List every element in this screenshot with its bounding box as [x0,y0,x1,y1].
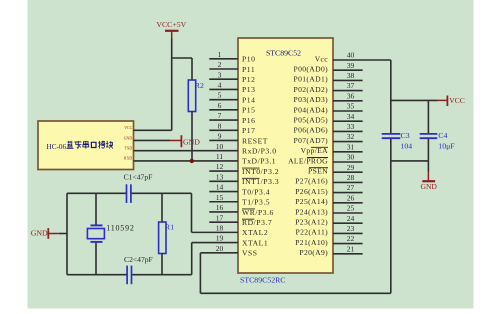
svg-text:23: 23 [347,224,355,233]
svg-text:27: 27 [347,183,355,192]
svg-text:P10: P10 [242,55,255,64]
svg-text:P03(AD3): P03(AD3) [294,95,329,104]
svg-text:11: 11 [216,152,224,161]
svg-text:P25(A14): P25(A14) [295,197,328,206]
svg-text:33: 33 [347,122,355,131]
svg-text:P15: P15 [242,106,255,115]
svg-text:P07(AD7): P07(AD7) [294,136,329,145]
svg-text:25: 25 [347,204,355,213]
svg-text:P20(A9): P20(A9) [299,248,328,257]
svg-text:P12: P12 [242,75,255,84]
svg-text:P24(A13): P24(A13) [295,207,328,216]
svg-text:30: 30 [347,153,355,162]
svg-text:P00(AD0): P00(AD0) [294,65,329,74]
svg-text:39: 39 [347,61,355,70]
svg-text:26: 26 [347,193,355,202]
svg-text:RXD: RXD [124,157,132,161]
svg-text:1: 1 [218,50,222,59]
svg-text:P13: P13 [242,85,255,94]
svg-text:GND: GND [183,137,200,146]
svg-text:XTAL2: XTAL2 [242,228,268,237]
svg-text:9: 9 [218,132,222,141]
svg-text:2: 2 [218,60,222,69]
svg-text:14: 14 [216,183,224,192]
svg-text:18: 18 [216,223,224,232]
svg-text:P05(AD5): P05(AD5) [294,116,329,125]
svg-text:P04(AD4): P04(AD4) [294,105,329,114]
svg-text:40: 40 [347,51,355,60]
svg-text:Vcc: Vcc [315,54,329,63]
svg-text:TXD: TXD [124,146,132,150]
svg-text:P01(AD1): P01(AD1) [294,75,329,84]
svg-text:7: 7 [218,111,222,120]
svg-text:P16: P16 [242,116,255,125]
svg-text:VCC: VCC [449,96,465,105]
svg-text:31: 31 [347,142,355,151]
svg-text:C2<47pF: C2<47pF [124,255,153,264]
svg-text:P26(A15): P26(A15) [295,187,328,196]
svg-text:104: 104 [401,142,413,151]
svg-text:T1/P3.5: T1/P3.5 [242,198,270,207]
svg-text:110592: 110592 [106,224,135,233]
svg-text:16: 16 [216,203,224,212]
svg-text:36: 36 [347,91,355,100]
svg-text:5: 5 [218,91,222,100]
svg-text:P11: P11 [242,65,255,74]
svg-text:C4: C4 [438,131,447,140]
svg-text:VSS: VSS [242,249,258,258]
svg-text:P23(A12): P23(A12) [295,218,328,227]
svg-text:C3: C3 [401,131,410,140]
svg-text:19: 19 [216,234,224,243]
svg-text:6: 6 [218,101,222,110]
svg-text:P02(AD2): P02(AD2) [294,85,329,94]
svg-text:10μF: 10μF [438,142,455,151]
svg-text:28: 28 [347,173,355,182]
svg-text:8: 8 [218,121,222,130]
svg-text:15: 15 [216,193,224,202]
svg-text:GND: GND [420,182,437,191]
svg-text:GND: GND [124,136,133,140]
svg-text:35: 35 [347,102,355,111]
svg-text:STC89C52RC: STC89C52RC [240,276,286,285]
svg-text:TxD/P3.1: TxD/P3.1 [242,157,276,166]
svg-text:20: 20 [216,244,224,253]
svg-text:32: 32 [347,132,355,141]
svg-text:22: 22 [347,234,355,243]
svg-text:HC-06: HC-06 [47,143,67,151]
svg-text:34: 34 [347,112,355,121]
svg-text:P17: P17 [242,126,255,135]
svg-text:GND: GND [31,229,48,238]
svg-text:C1<47pF: C1<47pF [124,173,153,182]
svg-text:12: 12 [216,162,224,171]
svg-text:STC89C52: STC89C52 [266,49,301,58]
svg-text:R1: R1 [165,223,174,232]
svg-text:XTAL1: XTAL1 [242,238,268,247]
svg-text:P22(A11): P22(A11) [296,228,329,237]
svg-text:VCC+5V: VCC+5V [156,20,186,29]
svg-text:17: 17 [216,213,224,222]
svg-text:10: 10 [216,142,224,151]
svg-text:3: 3 [218,70,222,79]
svg-text:RESET: RESET [242,136,268,145]
svg-text:VCC: VCC [124,126,132,130]
svg-text:P27(A16): P27(A16) [295,177,328,186]
svg-text:29: 29 [347,163,355,172]
svg-text:21: 21 [347,244,355,253]
svg-text:24: 24 [347,214,355,223]
svg-text:R2: R2 [195,81,204,90]
svg-text:37: 37 [347,81,355,90]
svg-text:P14: P14 [242,95,255,104]
svg-text:RxD/P3.0: RxD/P3.0 [242,146,277,155]
svg-text:P06(AD6): P06(AD6) [294,126,329,135]
svg-text:T0/P3.4: T0/P3.4 [242,187,270,196]
svg-text:13: 13 [216,172,224,181]
svg-text:4: 4 [218,81,222,90]
svg-text:38: 38 [347,71,355,80]
svg-text:P21(A10): P21(A10) [295,238,328,247]
